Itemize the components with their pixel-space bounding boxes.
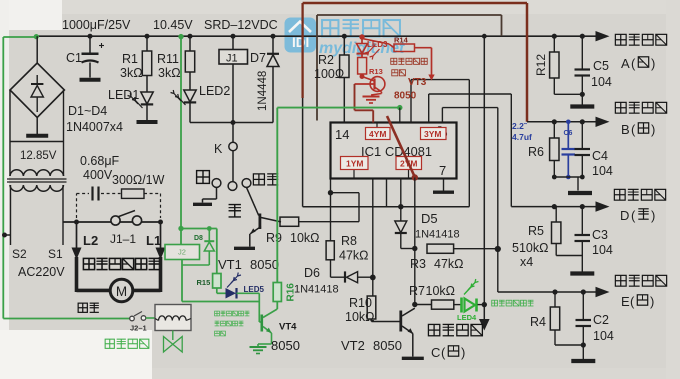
svg-text:R2: R2	[318, 53, 334, 67]
node R3 left	[412, 246, 417, 251]
resistor R15 (green)	[216, 229, 218, 274]
transformer T1 secondary leads	[9, 90, 11, 164]
wire mid bus y207	[303, 206, 470, 208]
svg-text:R5: R5	[528, 224, 544, 238]
pin label 2YM	[408, 170, 410, 179]
switch K	[232, 123, 234, 143]
ground row D	[570, 271, 594, 275]
svg-text:47kΩ: 47kΩ	[434, 257, 464, 271]
ground row A	[570, 104, 594, 108]
svg-text:C: C	[431, 345, 440, 360]
electrode C arrow	[483, 305, 485, 319]
resistor R13 (red)	[361, 54, 363, 58]
svg-text:A: A	[621, 56, 630, 71]
pin label 1YM	[353, 170, 355, 179]
label tank-has-water (red)	[391, 58, 397, 64]
svg-text:R3: R3	[410, 257, 426, 271]
node A R12	[552, 34, 557, 39]
svg-text:LED2: LED2	[199, 84, 230, 98]
svg-text:7: 7	[439, 163, 446, 178]
svg-text:C3: C3	[592, 228, 608, 242]
svg-text:E: E	[621, 294, 630, 309]
wire auto contact to VT1 base	[247, 187, 259, 215]
label kai (open)	[197, 171, 210, 184]
LED1	[146, 76, 148, 93]
svg-text:104: 104	[593, 329, 614, 343]
svg-text:1N4448: 1N4448	[257, 71, 269, 111]
capacitor C6 (blue)	[566, 120, 571, 125]
svg-text:10.45V: 10.45V	[153, 18, 193, 32]
node A C5	[580, 34, 585, 39]
svg-text:(: (	[630, 294, 635, 309]
wire net E (IC to row E)	[441, 108, 443, 123]
svg-text:B: B	[621, 122, 630, 137]
resistor R1 3k	[146, 36, 148, 51]
diode D5 1N41418	[400, 207, 402, 221]
svg-text:R15: R15	[197, 278, 211, 287]
wire green J2 feed	[180, 37, 182, 229]
red base wire to IC	[355, 83, 375, 85]
svg-text:R1: R1	[122, 52, 138, 66]
svg-text:(: (	[631, 208, 636, 223]
svg-text:104: 104	[592, 164, 613, 178]
svg-text:): )	[650, 294, 654, 309]
node J1 tap	[231, 34, 236, 39]
svg-text:3kΩ: 3kΩ	[158, 66, 181, 80]
svg-text:2.2˜: 2.2˜	[512, 121, 528, 131]
svg-text:D8: D8	[194, 235, 203, 242]
node C1 tap	[88, 34, 93, 39]
svg-text:10kΩ: 10kΩ	[426, 284, 456, 298]
resistor R10 10k	[372, 179, 374, 297]
svg-text:J1–1: J1–1	[110, 232, 136, 246]
LED5 (navy)	[216, 288, 218, 293]
wire load row	[63, 221, 161, 223]
svg-text:3YM: 3YM	[424, 129, 441, 139]
wire net1 loop	[410, 80, 412, 123]
relay contact J2-1	[130, 316, 135, 321]
label detection electrode A	[615, 34, 626, 45]
wire maroon top rail	[303, 2, 527, 5]
LED3 (red)	[361, 37, 363, 44]
label detection electrode E	[615, 275, 626, 286]
label auto	[253, 174, 264, 185]
valve symbol	[172, 331, 174, 341]
svg-text:(: (	[631, 56, 636, 71]
svg-text:VT1: VT1	[218, 257, 242, 272]
resistor R11 3k	[189, 36, 191, 51]
electrode D arrow	[596, 201, 610, 211]
svg-text:300Ω/1W: 300Ω/1W	[112, 173, 165, 187]
svg-text:): )	[461, 345, 465, 360]
green arrows LED4	[468, 283, 475, 291]
svg-text:VT2: VT2	[341, 338, 365, 353]
svg-text:SRD–12VDC: SRD–12VDC	[204, 18, 278, 32]
pin label 3YM	[421, 128, 447, 140]
resistor R7 10k	[415, 304, 432, 306]
label water pump	[78, 303, 87, 312]
svg-text:1000μF/25V: 1000μF/25V	[62, 18, 131, 32]
node R2 tap	[342, 34, 347, 39]
svg-text:S2: S2	[12, 247, 27, 261]
svg-text:L2: L2	[83, 233, 98, 248]
svg-text:R8: R8	[341, 234, 357, 248]
node R11 tap	[188, 34, 193, 39]
wire IC pin to D5 bus	[386, 179, 388, 207]
svg-text:4.7uf: 4.7uf	[512, 132, 532, 142]
wire row A join	[554, 93, 582, 95]
resistor R16 (green)	[276, 282, 278, 284]
bridge rectifier D1-D4	[36, 36, 38, 63]
svg-text:J2: J2	[178, 248, 186, 257]
electrode A arrow	[596, 31, 610, 41]
resistor R4	[554, 292, 556, 307]
watermark logo mydigit	[285, 18, 317, 53]
svg-text:100Ω: 100Ω	[314, 67, 344, 81]
tiny green note 3 lines	[215, 311, 220, 316]
capacitor C2 104	[582, 292, 584, 320]
diode D6 1N41418	[330, 260, 332, 277]
wire row B join	[554, 176, 582, 178]
svg-text:104: 104	[592, 243, 613, 257]
svg-text:R11: R11	[157, 52, 179, 66]
svg-text:8050: 8050	[250, 257, 279, 272]
svg-text:x4: x4	[520, 255, 533, 269]
resistor R14 (red)	[362, 39, 389, 45]
svg-text:): )	[651, 208, 655, 223]
resistor R5 510k x4	[555, 207, 557, 222]
diode D7 1N4448	[272, 36, 274, 53]
pin label 4YM	[376, 123, 378, 128]
svg-text:47kΩ: 47kΩ	[339, 249, 369, 263]
node green top-left	[34, 34, 39, 39]
svg-text:C4: C4	[592, 149, 608, 163]
label detection electrode D	[614, 189, 625, 200]
svg-text:D1~D4: D1~D4	[68, 104, 107, 118]
svg-text:R12: R12	[534, 54, 548, 76]
node red tap	[359, 34, 364, 39]
label detection electrode C	[428, 324, 439, 335]
svg-text:1YM: 1YM	[346, 159, 363, 169]
wire maroon left drop	[301, 3, 303, 98]
wire row D join	[556, 255, 582, 257]
label detection electrode B	[615, 102, 626, 113]
watermark text	[319, 20, 405, 57]
wire green gate feed	[277, 107, 400, 109]
transformer core	[7, 178, 67, 180]
node R7 left	[412, 302, 417, 307]
label load control output (bold)	[83, 258, 94, 269]
red annotation diagonal	[387, 116, 415, 177]
wire open contact to ground	[216, 187, 218, 199]
svg-text:10kΩ: 10kΩ	[290, 231, 320, 245]
svg-text:D: D	[620, 208, 629, 223]
svg-text:J1: J1	[226, 53, 238, 65]
svg-text:S1: S1	[48, 247, 63, 261]
svg-text:R14: R14	[394, 36, 409, 45]
relay coil J2 (green)	[180, 229, 182, 245]
label solenoid water valve (green)	[105, 339, 114, 348]
svg-text:IDI: IDI	[292, 35, 309, 50]
capacitor C4 104	[581, 122, 583, 149]
relay coil J1	[232, 36, 234, 49]
transformer primary leads	[10, 185, 12, 245]
wire L2 drop	[76, 222, 78, 248]
wire L1 drop	[160, 222, 162, 248]
node IC pin1	[328, 190, 333, 195]
svg-text:12.85V: 12.85V	[20, 150, 57, 162]
svg-text:14: 14	[335, 127, 349, 142]
svg-text:510kΩ: 510kΩ	[512, 241, 548, 255]
svg-text:R13: R13	[369, 67, 383, 76]
svg-text:J2–1: J2–1	[130, 324, 147, 333]
svg-text:R16: R16	[286, 283, 297, 302]
wire electrode B	[527, 121, 597, 123]
node L1 tap	[158, 220, 163, 225]
ground IC pin7	[443, 179, 445, 191]
svg-text:R9: R9	[266, 231, 282, 245]
ground row E	[571, 359, 595, 363]
svg-text:C5: C5	[593, 59, 609, 73]
wire R9 to IC pin loop	[358, 193, 360, 222]
wire green AC loop left	[2, 37, 4, 319]
svg-text:1N4007x4: 1N4007x4	[66, 120, 123, 134]
wire row E join	[555, 344, 583, 346]
node D5	[398, 204, 403, 209]
svg-text:400V: 400V	[83, 168, 113, 182]
electrode E arrow	[596, 287, 610, 297]
svg-text:D7: D7	[250, 51, 266, 65]
wire VT2 collector net	[414, 178, 416, 305]
svg-text:1N41418: 1N41418	[415, 229, 460, 241]
snubber capacitor 0.68uF dashed branch	[76, 194, 78, 219]
wire dark inner rail	[317, 14, 502, 16]
svg-text:L1: L1	[146, 233, 161, 248]
resistor R9 10k	[280, 217, 299, 226]
LED4 (green)	[460, 298, 463, 313]
node R3 right	[495, 246, 501, 252]
node electrode C	[482, 302, 487, 307]
svg-text:104: 104	[591, 75, 612, 89]
svg-text:): )	[651, 122, 655, 137]
svg-text:3kΩ: 3kΩ	[120, 66, 143, 80]
svg-text:C2: C2	[593, 313, 609, 327]
svg-text:(: (	[441, 345, 446, 360]
transistor VT2 8050	[399, 311, 402, 332]
capacitor C1 1000uF	[89, 36, 91, 52]
solenoid valve coil box	[155, 305, 191, 331]
wire +12V supply rail	[36, 35, 601, 37]
node D6/R10	[370, 275, 376, 281]
svg-text:LED4: LED4	[457, 313, 477, 322]
svg-text:1N41418: 1N41418	[294, 284, 339, 296]
node D8 top	[207, 226, 212, 231]
resistor R6	[553, 122, 555, 138]
svg-text:10kΩ: 10kΩ	[345, 310, 375, 324]
ground bridge	[36, 118, 38, 135]
capacitor C3 104	[581, 207, 583, 235]
svg-text:VT3: VT3	[408, 77, 427, 88]
resistor R3 47k	[427, 244, 454, 253]
LED2	[189, 72, 191, 90]
svg-text:0.68μF: 0.68μF	[80, 154, 120, 168]
svg-text:4YM: 4YM	[369, 129, 386, 139]
svg-text:R4: R4	[530, 315, 546, 329]
svg-text:AC220V: AC220V	[18, 265, 65, 279]
svg-text:VT4: VT4	[279, 322, 297, 333]
svg-text:C6: C6	[564, 130, 573, 137]
wire green J2 loop	[181, 228, 217, 230]
node green J2 feed	[178, 34, 183, 39]
relay contact J1-1	[111, 216, 120, 225]
label toilet water indicator (green)	[492, 300, 498, 306]
resistor R12	[553, 36, 555, 52]
wire LED2/J1/D7 common	[190, 122, 273, 124]
svg-text:R6: R6	[528, 145, 544, 159]
transistor VT1 8050	[258, 214, 261, 230]
wire electrode E	[498, 291, 597, 293]
wire to valve	[146, 317, 155, 319]
resistor R8 47k	[330, 193, 332, 241]
node green J2 top	[178, 226, 183, 231]
svg-text:8050: 8050	[373, 338, 402, 353]
transistor VT4 (green)	[259, 321, 262, 323]
svg-text:8050: 8050	[394, 91, 417, 102]
transformer secondary winding	[10, 170, 64, 176]
svg-text:LED1: LED1	[108, 88, 139, 102]
svg-text:K: K	[214, 142, 223, 156]
node R1 tap	[145, 34, 150, 39]
node L2 tap	[74, 220, 79, 225]
node R13 bottom	[360, 74, 365, 79]
svg-text:M: M	[116, 284, 127, 299]
transistor VT3 (red)	[370, 77, 385, 92]
resistor 300ohm/1W	[122, 189, 145, 198]
svg-text:C1: C1	[66, 51, 82, 65]
svg-text:D6: D6	[304, 266, 320, 280]
transformer primary winding	[10, 185, 64, 191]
label guan (close)	[229, 204, 241, 206]
node K common	[231, 120, 236, 125]
wire electrode C vertical	[483, 36, 485, 305]
electrode B arrow	[596, 117, 610, 127]
wire mains tap	[5, 234, 11, 236]
svg-text:R7: R7	[409, 284, 425, 298]
svg-text:8050: 8050	[271, 338, 300, 353]
node D7 tap	[271, 34, 276, 39]
svg-text:D5: D5	[421, 211, 438, 226]
svg-text:): )	[651, 56, 655, 71]
diode D8 (green)	[208, 229, 210, 243]
node green end	[397, 105, 402, 110]
svg-text:R10: R10	[349, 296, 372, 310]
wire electrode D	[511, 206, 596, 208]
resistor R2 100ohm	[343, 36, 345, 55]
capacitor C5 104	[581, 36, 583, 69]
op-amp IC1 CD4081	[331, 123, 457, 179]
switch contacts open/auto	[212, 179, 221, 188]
ground row B	[568, 191, 592, 195]
motor M water pump	[77, 289, 111, 293]
wire net D (IC to row D)	[428, 94, 430, 123]
svg-text:(: (	[631, 122, 636, 137]
